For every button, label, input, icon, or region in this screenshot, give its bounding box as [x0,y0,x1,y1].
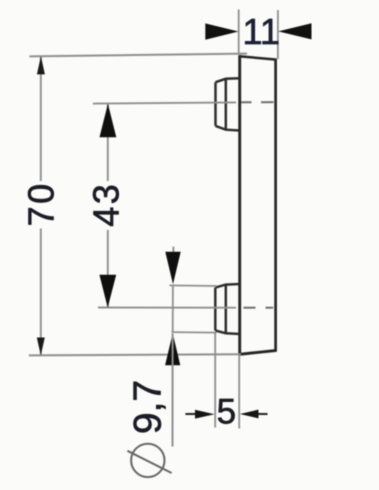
dim 70 line upper segment [40,57,42,181]
dim 9,7 down arrow [165,252,180,284]
diameter symbol circle [131,444,164,477]
svg-text:11: 11 [243,11,280,52]
upper boss centerline dash 1 [241,101,252,103]
dim 9,7 bottom extension line [172,331,217,334]
part plate top edge [239,56,277,59]
dim 5 left extension line [214,334,216,428]
part plate left edge [238,55,241,355]
dim 11 left extension line [238,10,240,55]
lower boss centerline dash 1 [244,307,256,309]
dim 5 right extension line [238,356,240,429]
dim 70 line lower segment [40,229,42,355]
upper boss centerline dash 2 [261,101,274,103]
upper boss base line [225,79,228,130]
dim 5 right arrow [240,410,259,419]
lower boss bottom edge [215,331,239,335]
dim 11 right arrow [278,23,311,39]
dim 9,7 line between extension lines [172,285,174,333]
dim 5 left arrow tail [185,413,195,415]
upper boss left face [214,82,217,126]
svg-text:9,7: 9,7 [127,380,170,434]
dim 11 left arrow [205,23,238,39]
lower boss top edge [215,284,239,288]
dim 70 up arrow [37,56,45,74]
dim 43 line lower segment [107,230,109,307]
lower boss centerline dash 2 [266,307,274,309]
dim 9,7 up arrow [165,333,180,365]
lower boss base line [225,285,228,334]
dim 9,7 stub above down arrow [172,247,174,253]
svg-text:43: 43 [86,182,127,227]
dim 70 top extension line [29,54,247,57]
lower boss left face [214,288,217,331]
dim 11 right extension line [277,10,279,59]
dim 43 down arrow [99,275,116,308]
svg-text:5: 5 [217,393,236,432]
dim 5 right arrow tail [259,413,268,415]
dim 70 bottom extension line [29,354,241,355]
dim 5 left arrow [195,410,215,419]
part plate bottom edge [239,350,277,354]
dim 43 line upper segment [107,105,109,182]
dim 9,7 top extension line [170,284,217,287]
diameter symbol slash [127,451,171,473]
dim 70 down arrow [37,338,45,356]
dim 9,7 leader line down to label [172,334,174,447]
svg-text:70: 70 [20,181,61,226]
dim 43 bottom extension line [98,307,236,309]
upper boss bottom edge [216,126,240,131]
dim 43 up arrow [100,104,117,138]
upper boss top edge [216,78,240,82]
part plate right edge [274,59,277,352]
dim 43 top extension line [93,102,236,103]
